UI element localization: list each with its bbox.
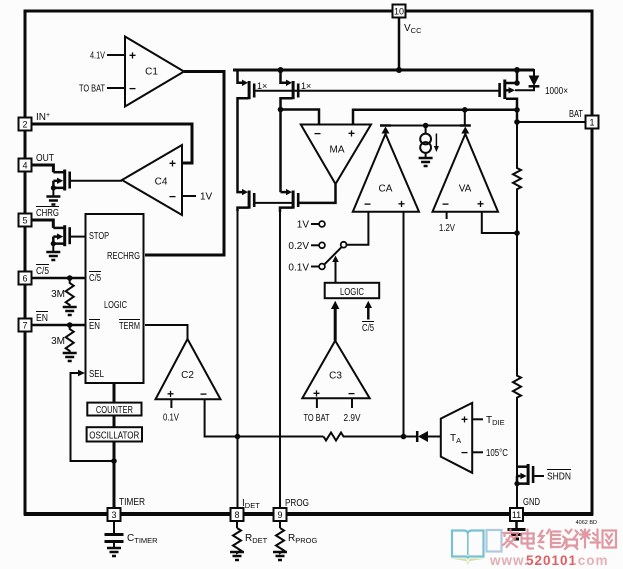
svg-text:1.2V: 1.2V xyxy=(439,223,455,234)
wire net B drop to VA top xyxy=(464,110,466,126)
svg-text:−: − xyxy=(314,127,321,141)
ground at Q4 source xyxy=(46,188,60,205)
svg-text:MA: MA xyxy=(330,145,345,156)
wire net A down to M4 xyxy=(279,110,282,193)
resistor R2 (BAT divider lower) xyxy=(513,233,521,513)
ground at Q5 source xyxy=(46,244,60,260)
reference terminal 0.2V xyxy=(288,241,324,252)
svg-text:RPROG: RPROG xyxy=(288,533,317,545)
wire C3 + input TO BAT xyxy=(316,398,318,408)
wire IDET rail xyxy=(237,211,239,513)
capacitor CTIMER xyxy=(105,521,159,548)
svg-text:COUNTER: COUNTER xyxy=(96,405,133,416)
diode symbol at CA top xyxy=(380,126,391,134)
svg-text:OSCILLATOR: OSCILLATOR xyxy=(89,430,139,441)
pin 2 IN+ xyxy=(19,112,51,131)
wire VA - input to 1.2V xyxy=(446,212,448,219)
wire VCC rail (mirror sources) xyxy=(233,69,534,72)
LOGIC2 block xyxy=(325,283,380,298)
transistor M3 (lower mirror left) xyxy=(238,110,256,211)
svg-text:+: + xyxy=(461,413,468,427)
svg-text:C2: C2 xyxy=(181,370,194,381)
svg-text:4: 4 xyxy=(22,161,27,171)
svg-text:2.9V: 2.9V xyxy=(344,413,361,424)
wire pin6 C/5 to logic input xyxy=(26,277,86,280)
svg-text:C4: C4 xyxy=(155,177,168,188)
wire Q5 gate to STOP xyxy=(71,236,86,238)
arrow C3 output into LOGIC2 xyxy=(331,301,339,341)
wire SEL feedback loop xyxy=(71,373,115,461)
resistor 3M (C/5 pulldown) xyxy=(51,278,74,307)
svg-text:PROG: PROG xyxy=(285,498,309,509)
transistor M1 (1x mirror, upper left) xyxy=(238,70,268,110)
svg-text:−: − xyxy=(461,446,468,460)
svg-text:0.1V: 0.1V xyxy=(163,413,179,424)
svg-text:6: 6 xyxy=(22,274,27,284)
svg-text:4.1V: 4.1V xyxy=(90,51,105,62)
svg-text:0.1V: 0.1V xyxy=(288,263,309,274)
diode D2 (TA output) xyxy=(417,431,441,442)
transistor Q4 (OUT pulldown) xyxy=(51,170,71,191)
resistor RDET xyxy=(233,521,268,553)
wire OSCILLATOR to pin3 TIMER xyxy=(113,442,116,515)
OSCILLATOR block xyxy=(87,427,142,441)
ground below CTIMER xyxy=(107,548,121,556)
comparator C2 xyxy=(156,339,221,401)
node VCC junction xyxy=(396,67,402,73)
svg-text:IN+: IN+ xyxy=(36,112,50,123)
wire C3 - input 2.9V xyxy=(351,398,353,408)
COUNTER block xyxy=(87,403,141,416)
LOGIC block U1 xyxy=(86,214,144,383)
wire C1 output to RECHRG input xyxy=(145,72,224,256)
ground below current source xyxy=(419,158,433,166)
arrow C/5 into LOGIC2 xyxy=(362,301,374,334)
pin 5 CHRG xyxy=(19,207,60,227)
pin 7 EN xyxy=(19,312,49,332)
pin 3 TIMER xyxy=(108,497,146,521)
node mirror rail junction T2 xyxy=(278,67,284,73)
svg-text:C/5: C/5 xyxy=(36,266,49,277)
svg-text:C1: C1 xyxy=(145,67,158,78)
ground below RDET xyxy=(230,552,244,560)
svg-text:GND: GND xyxy=(523,497,540,508)
resistor RPROG xyxy=(276,521,317,553)
transistor Q5 (CHRG pulldown) xyxy=(51,225,71,246)
svg-text:SEL: SEL xyxy=(89,369,104,380)
svg-text:C/5: C/5 xyxy=(362,323,374,334)
wire TERM to C2 input xyxy=(145,325,188,339)
svg-text:2: 2 xyxy=(22,120,27,130)
pin 6 C/5 xyxy=(19,265,50,285)
wire amp top bus xyxy=(386,125,465,127)
svg-text:4062 BD: 4062 BD xyxy=(576,520,597,526)
ground below pin11 xyxy=(508,521,526,539)
comparator C3 xyxy=(302,341,369,401)
wire mirror gate bus to 1000x gate xyxy=(254,90,499,92)
svg-text:1×: 1× xyxy=(257,81,267,91)
wire TA + input TDIE xyxy=(472,418,483,420)
svg-text:CA: CA xyxy=(379,184,393,195)
svg-text:1000×: 1000× xyxy=(545,86,568,97)
svg-text:EN: EN xyxy=(36,313,48,324)
comparator C1 xyxy=(79,37,184,107)
svg-text:+: + xyxy=(129,49,136,63)
pin 9 PROG xyxy=(274,498,310,521)
svg-text:3M: 3M xyxy=(51,289,65,300)
node divider tap xyxy=(514,230,520,236)
watermark url xyxy=(489,553,609,568)
ground below 3M resistor xyxy=(63,353,77,361)
svg-text:OUT: OUT xyxy=(36,153,54,164)
node CA + junction xyxy=(401,434,407,440)
svg-text:1V: 1V xyxy=(297,220,310,231)
wire BAT to pin1 xyxy=(517,121,591,123)
wire COUNTER to OSCILLATOR xyxy=(113,416,116,428)
transistor M6 (SHDN) xyxy=(514,464,571,486)
svg-text:1: 1 xyxy=(589,118,594,128)
svg-text:105°C: 105°C xyxy=(486,448,508,459)
resistor R1 (BAT divider upper) xyxy=(513,122,521,233)
pin 10 VCC xyxy=(393,5,423,36)
svg-text:LOGIC: LOGIC xyxy=(340,287,364,298)
svg-text:STOP: STOP xyxy=(89,231,109,242)
svg-text:RDET: RDET xyxy=(245,533,268,545)
svg-text:11: 11 xyxy=(512,510,521,520)
svg-text:+: + xyxy=(348,127,355,141)
svg-text:RECHRG: RECHRG xyxy=(107,251,140,262)
comparator C4 xyxy=(122,145,213,215)
wire pin7 EN to logic input xyxy=(26,324,86,327)
wire pin2 IN+ to C4 + input xyxy=(26,124,192,163)
error amp CA xyxy=(353,134,419,212)
node mirror rail junction 1000x xyxy=(514,67,520,73)
svg-text:−: − xyxy=(169,190,176,204)
node SEL loop junction xyxy=(111,458,117,464)
op-amp MA xyxy=(301,125,371,185)
node net B junction to amps xyxy=(462,107,468,113)
svg-text:+: + xyxy=(169,157,176,171)
svg-text:IDET: IDET xyxy=(242,498,260,510)
switch blade and pole xyxy=(325,212,369,265)
diode D1 (gate clamp) xyxy=(515,70,539,90)
wire 1000x drain to BAT xyxy=(516,110,519,122)
svg-text:−: − xyxy=(200,387,207,401)
transistor M5 (1000x output PMOS) xyxy=(498,70,568,110)
wire pin4 OUT to Q4 drain xyxy=(26,165,53,172)
wire TA - input 105C xyxy=(472,451,483,453)
svg-text:+: + xyxy=(167,387,174,401)
svg-text:5: 5 xyxy=(22,216,27,226)
wire C2 - input to IDET sense line xyxy=(205,399,324,436)
svg-text:10: 10 xyxy=(394,7,404,17)
node mirror drain junction (net A) xyxy=(278,107,284,113)
svg-text:3M: 3M xyxy=(51,336,65,347)
resistor 3M (EN pulldown) xyxy=(51,325,74,353)
wire M3 gate to M4 xyxy=(254,202,292,204)
svg-text:520101: 520101 xyxy=(526,553,577,568)
svg-text:8: 8 xyxy=(234,510,239,520)
svg-text:TO BAT: TO BAT xyxy=(79,84,105,95)
wire LOGIC to COUNTER xyxy=(113,383,116,403)
svg-text:www.: www. xyxy=(489,553,529,568)
svg-text:TDIE: TDIE xyxy=(486,415,505,427)
svg-text:3: 3 xyxy=(111,510,116,520)
node pin7 junction xyxy=(67,322,73,328)
svg-text:1×: 1× xyxy=(301,81,311,91)
wire MA output to M4 gate xyxy=(297,184,336,203)
pin 4 OUT xyxy=(19,153,55,172)
svg-text:SHDN: SHDN xyxy=(547,472,571,483)
svg-text:TIMER: TIMER xyxy=(119,497,145,508)
node BAT junction xyxy=(514,119,520,125)
wire net A to MA - input xyxy=(281,110,320,125)
wire PROG rail xyxy=(279,211,281,513)
transistor M4 (lower mirror right) xyxy=(280,189,300,212)
node pin6 junction xyxy=(67,275,73,281)
svg-text:VCC: VCC xyxy=(404,23,422,35)
voltage amp VA xyxy=(433,134,499,212)
current source I1 xyxy=(420,126,439,159)
temp amp TA xyxy=(441,403,472,473)
svg-text:.com: .com xyxy=(573,553,609,568)
pin 11 GND xyxy=(510,508,523,521)
pin 1 BAT xyxy=(586,116,599,129)
svg-text:VA: VA xyxy=(459,184,472,195)
node 1000x drain / net B xyxy=(514,107,520,113)
wire MA + input to 1000x drain (net B) xyxy=(353,110,517,125)
svg-text:C3: C3 xyxy=(329,371,342,382)
node current source junction xyxy=(423,123,429,129)
svg-text:CTIMER: CTIMER xyxy=(127,533,158,545)
svg-text:1V: 1V xyxy=(200,192,213,203)
svg-text:+: + xyxy=(398,197,405,211)
reference terminal 1V xyxy=(297,220,325,231)
wire C4 output to Q4 gate xyxy=(71,180,122,182)
svg-text:7: 7 xyxy=(22,321,27,331)
ground below RPROG xyxy=(273,552,287,560)
wire C2 + input 0.1V xyxy=(170,399,172,408)
svg-text:+: + xyxy=(477,197,484,211)
svg-text:LOGIC: LOGIC xyxy=(104,300,127,311)
svg-text:EN: EN xyxy=(89,321,100,332)
resistor R3 (sense) xyxy=(324,433,418,441)
svg-text:0.2V: 0.2V xyxy=(288,241,309,252)
arrow into SEL xyxy=(78,370,85,376)
wire CA + input rail xyxy=(403,212,405,437)
ground below 3M resistor xyxy=(63,307,77,315)
wire pin10 VCC drop xyxy=(398,13,401,70)
pin 8 IDET xyxy=(231,498,261,521)
svg-text:−: − xyxy=(364,197,371,211)
watermark Chinese characters (drawn as strokes) xyxy=(503,530,616,550)
wire VA + input to divider tap xyxy=(482,212,517,233)
reference terminal 0.1V xyxy=(288,263,324,274)
svg-text:CHRG: CHRG xyxy=(36,208,59,219)
svg-text:C/5: C/5 xyxy=(89,273,101,284)
svg-text:TO BAT: TO BAT xyxy=(304,413,330,424)
svg-text:9: 9 xyxy=(277,510,282,520)
node IDET junction xyxy=(235,434,241,440)
watermark bracket square xyxy=(487,530,502,552)
watermark book icon xyxy=(450,531,486,565)
diode symbol at VA top xyxy=(460,126,471,134)
svg-text:BAT: BAT xyxy=(569,109,583,120)
svg-text:−: − xyxy=(442,197,449,211)
svg-text:TERM: TERM xyxy=(119,321,140,332)
switch control arrow from LOGIC2 xyxy=(332,256,339,283)
svg-text:−: − xyxy=(129,82,136,96)
wire pin5 CHRG to Q5 drain xyxy=(26,220,53,228)
transistor M2 (1x mirror, upper right) xyxy=(281,70,312,109)
